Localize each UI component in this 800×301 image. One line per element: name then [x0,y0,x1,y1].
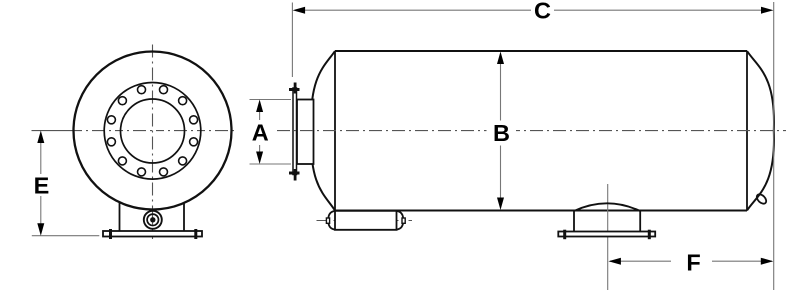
svg-text:E: E [34,172,50,198]
dimension C arrow left [293,7,306,14]
anchor bolt left (end view) [109,229,112,239]
nozzle flange outer circle [104,83,201,180]
shell bottom line [335,210,747,212]
svg-text:B: B [493,120,510,146]
drain pot left nipple [326,218,329,223]
dimension A line [259,102,261,120]
dimension B line [500,54,502,121]
dimension C extension left [291,3,293,78]
drain pot left cap [328,211,335,230]
drain coupling middle circle [147,214,158,225]
tank centerline horizontal (side view) [277,130,786,132]
label B background pad [487,121,517,144]
dimension A arrow up [256,100,263,113]
saddle anchor bolt right [648,230,651,240]
nozzle pipe (side view) [297,100,314,165]
drain pot right nipple [402,218,405,223]
dimension C / F extension right [773,2,775,290]
centerline vertical (end view) [152,45,154,240]
flange bolt bottom [289,172,300,175]
saddle anchor bolt left [563,230,566,240]
tank shell circle (end view) [74,52,232,210]
right head seam line [746,51,748,211]
dimension C line [295,9,531,11]
dimension F arrow left [608,258,621,265]
svg-text:F: F [686,250,700,276]
dimension B arrow up [497,52,504,65]
saddle (side view) [574,211,640,232]
flange bolt top [289,88,300,91]
saddle web (end view) [120,202,185,231]
left head seam line [334,51,336,211]
right head (dished) [747,51,774,211]
dimension A extension bottom [250,163,292,165]
svg-text:C: C [534,0,551,24]
dimension F line [610,260,671,262]
drain pot right cap [397,211,404,230]
dimension A extension top [250,99,292,101]
drain coupling (end view): outer circle [144,211,162,229]
saddle wear plate arc [574,203,640,211]
centerline horizontal (end view) [32,130,75,132]
saddle centerline / F extension (side view) [607,184,609,290]
svg-text:A: A [252,119,269,145]
base plate (end view) [103,231,202,237]
bolt holes (12x) [107,86,197,176]
nozzle flange plate [293,88,297,175]
dimension E arrow up [37,131,44,144]
drain pot centerline [317,220,413,222]
anchor bolt right (end view) [194,229,197,239]
dimension C arrow right [761,7,774,14]
left head (dished) [311,51,335,211]
dimension E arrow down [37,223,44,236]
right head coupling (small ellipse) [755,193,768,206]
dimension E extension line (bottom) [32,235,100,237]
saddle base plate (side view) [558,232,655,237]
nozzle bore circle [121,99,185,163]
dimension E line [40,133,42,174]
dimension A arrow down [256,152,263,165]
shell top line [335,50,747,52]
dimension B arrow down [497,198,504,211]
dimension F arrow right [761,258,774,265]
drain coupling center dot [150,217,155,222]
drain pot body [335,211,397,230]
